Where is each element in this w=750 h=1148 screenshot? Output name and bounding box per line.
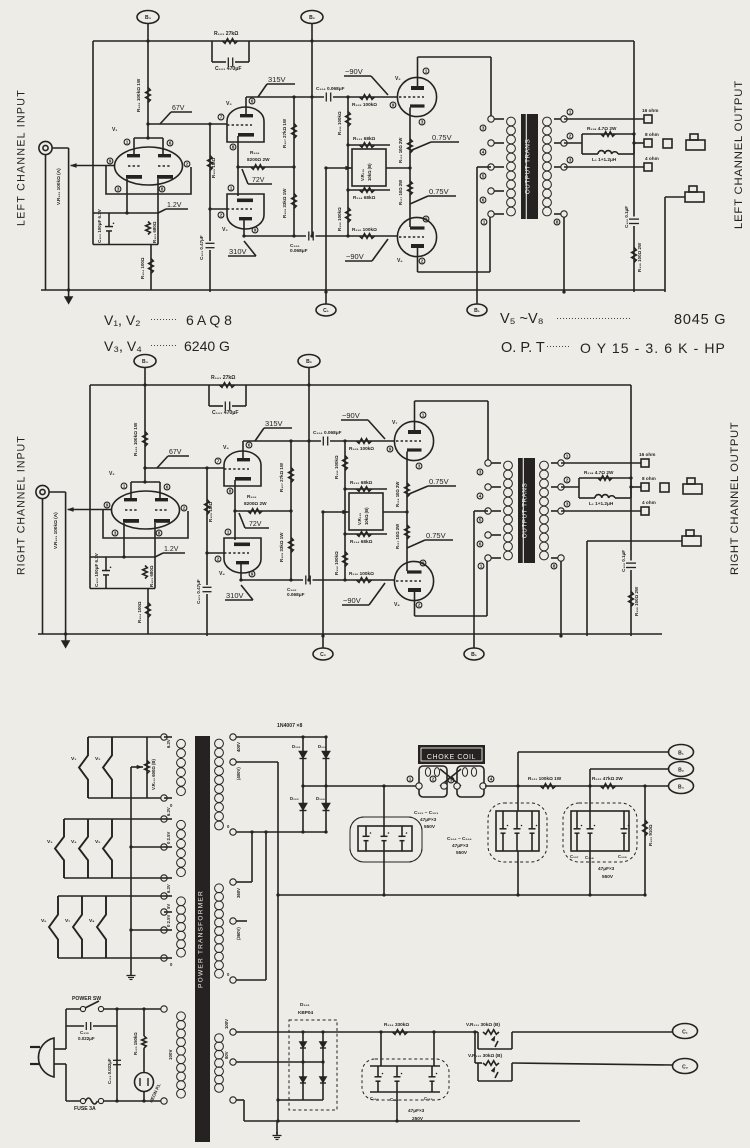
svg-text:315V: 315V: [265, 419, 283, 428]
svg-text:5: 5: [479, 518, 482, 523]
svg-text:R₁₀₉ 100kΩ: R₁₀₉ 100kΩ: [352, 102, 377, 107]
wire R bottom ground rail: [38, 633, 662, 635]
svg-text:R₁₂₃ 910Ω: R₁₂₃ 910Ω: [648, 824, 653, 846]
wire 8 ohm tap: [631, 486, 641, 488]
svg-text:R₁₂₄ 330kΩ: R₁₂₄ 330kΩ: [384, 1022, 409, 1027]
wire R balance wiper from bias terminal: [323, 511, 349, 513]
wire L balance right to cathodes: [386, 167, 410, 169]
tube V₆ 8045G lower output tube: [397, 217, 436, 256]
svg-text:LEFT CHANNEL INPUT: LEFT CHANNEL INPUT: [16, 89, 28, 226]
heater V7 filament: [73, 896, 82, 958]
connector speaker plug B: [685, 192, 704, 202]
pin T1 0V pin winding 1: [161, 795, 167, 801]
svg-text:16 ohm: 16 ohm: [642, 108, 658, 113]
wire heater group 2 center tap to ground bus: [131, 846, 164, 848]
svg-text:10kΩ (B): 10kΩ (B): [367, 163, 372, 181]
svg-text:LEFT CHANNEL OUTPUT: LEFT CHANNEL OUTPUT: [733, 80, 745, 229]
resistor LR108 33k 1W: [293, 167, 295, 236]
capacitor C115 0.022uF across line: [66, 1025, 84, 1027]
wire V₂ cathode leads: [123, 523, 125, 557]
wire R left frame: [89, 385, 91, 557]
capacitor RC101 470uF bypass loop: [208, 385, 210, 406]
svg-text:V₃: V₃: [222, 227, 228, 233]
svg-text:0: 0: [227, 972, 230, 977]
pin T1 HV center 0 pin: [230, 829, 236, 835]
svg-text:C₁₀₉: C₁₀₉: [618, 854, 627, 859]
svg-text:100V: 100V: [168, 1050, 173, 1060]
tube V₄ 6240G second half: [224, 538, 261, 573]
svg-text:R₁₁₁ 100kΩ: R₁₁₁ 100kΩ: [334, 455, 339, 479]
svg-text:6: 6: [482, 198, 485, 203]
pin T1 5V pin winding 3: [161, 909, 167, 915]
svg-text:0 2.5V: 0 2.5V: [166, 832, 171, 844]
coil T1 heater winding 2: [177, 820, 186, 829]
svg-text:550V: 550V: [602, 874, 614, 879]
svg-text:V₃: V₃: [226, 101, 232, 107]
resistor RR105 1M grid leak: [206, 468, 208, 585]
svg-text:V₃: V₃: [47, 839, 53, 845]
svg-text:5V: 5V: [166, 904, 171, 909]
svg-text:0.75V: 0.75V: [429, 187, 449, 196]
svg-text:V₈: V₈: [394, 602, 400, 608]
svg-text:R₁₁₄ 68kΩ: R₁₁₄ 68kΩ: [350, 539, 373, 544]
connector 4 ohm terminal: [641, 507, 649, 515]
svg-text:6: 6: [479, 542, 482, 547]
svg-text:7: 7: [217, 459, 220, 464]
svg-text:D₁₀₄: D₁₀₄: [316, 796, 325, 801]
connector speaker plug A: [660, 483, 669, 492]
svg-text:B₃: B₃: [142, 359, 149, 365]
tube V₃ 6240G second half: [227, 194, 264, 229]
svg-text:0.068μF: 0.068μF: [287, 592, 305, 597]
svg-text:D₁₀₉: D₁₀₉: [300, 1002, 310, 1007]
resistor R122 47k 2W dropping: [601, 784, 616, 789]
svg-text:R₁₁₁ 100kΩ: R₁₁₁ 100kΩ: [337, 111, 342, 135]
capacitor RC105 0.068uF coupling lower: [305, 576, 307, 585]
svg-text:V₆: V₆: [41, 918, 47, 924]
wire B₃ stem: [147, 24, 149, 139]
svg-text:R₁₀₂ 100kΩ 1W: R₁₀₂ 100kΩ 1W: [133, 422, 138, 456]
pin T1 6.3V pin winding 1: [161, 734, 167, 740]
connector R input jack: [36, 485, 49, 498]
inductor LL1 1.2uH damping: [582, 153, 598, 155]
svg-text:1: 1: [483, 220, 486, 225]
resistor RR101 27k on supply rail: [220, 383, 235, 388]
wire L jack to volume pot: [52, 147, 69, 149]
svg-text:B₂: B₂: [309, 15, 315, 21]
svg-text:47μF×3: 47μF×3: [598, 866, 615, 871]
svg-text:8200Ω 2W: 8200Ω 2W: [244, 501, 267, 506]
capacitor LC106 0.1uF feedback: [629, 218, 639, 220]
wire V₅ plate to output transformer: [417, 57, 419, 86]
wire 400V to rectifier anodes: [236, 736, 326, 738]
coil OPT primary winding: [504, 461, 513, 470]
svg-text:100V: 100V: [224, 1019, 229, 1029]
svg-text:R₁₁₄ 68kΩ: R₁₁₄ 68kΩ: [353, 195, 376, 200]
svg-text:47μF×3: 47μF×3: [452, 843, 469, 848]
resistor LR119 100 2W feedback: [632, 248, 637, 263]
svg-text:·········: ·········: [150, 314, 177, 324]
coil OPT primary winding: [507, 117, 516, 126]
wire V₄ plate lead: [240, 564, 242, 580]
pin T1 bias 100V pin: [230, 1029, 236, 1035]
wire B₂ stem down to driver plate node: [311, 24, 313, 237]
resistor RR112 100k bias feed lower: [343, 552, 348, 567]
svg-text:C₁₀₁ 470μF: C₁₀₁ 470μF: [215, 66, 242, 72]
svg-text:V₅ ~V₈: V₅ ~V₈: [500, 311, 544, 327]
wire choke crossover: [440, 769, 461, 786]
lamp NEON P.L pilot light: [143, 1048, 145, 1072]
wire R driver-b grid tap: [207, 552, 224, 554]
connector speaker plug B: [682, 536, 701, 546]
svg-text:3: 3: [418, 464, 421, 469]
svg-text:1: 1: [126, 140, 129, 145]
svg-text:R₁₁₈ 4.7Ω 2W: R₁₁₈ 4.7Ω 2W: [584, 470, 614, 475]
coil T1 heater winding 1: [177, 739, 186, 748]
pin T1 0V pin winding 3: [161, 955, 167, 961]
diode D103: [302, 786, 304, 832]
pin T1 (400V) pin: [230, 759, 236, 765]
svg-text:R₁₁₈ 4.7Ω 2W: R₁₁₈ 4.7Ω 2W: [587, 126, 617, 131]
svg-text:1: 1: [409, 777, 412, 782]
connector L input jack: [39, 141, 52, 154]
coil T1 HV winding 400V: [215, 739, 224, 748]
svg-text:R₁₂₁ 100kΩ 1W: R₁₂₁ 100kΩ 1W: [528, 776, 562, 781]
svg-text:·························: ·························: [556, 313, 631, 323]
wire 360V to center bus: [236, 881, 252, 883]
svg-text:−90V: −90V: [346, 252, 364, 261]
wire B2 takeoff: [590, 768, 668, 770]
resistor RR104 100 to ground: [147, 589, 149, 635]
svg-text:V.R₁₀₁ 100kΩ (A): V.R₁₀₁ 100kΩ (A): [53, 512, 58, 549]
svg-text:3: 3: [482, 126, 485, 131]
tube V₇ 8045G upper output tube: [394, 421, 433, 460]
wire heater group 1 bottom bus: [88, 797, 161, 799]
terminal B₃ supply input: [134, 355, 156, 368]
pin T1 2.5V pin winding 3: [161, 927, 167, 933]
svg-text:9: 9: [422, 561, 425, 566]
svg-text:6.3V: 6.3V: [166, 884, 171, 893]
svg-text:R₁₁₆ 10Ω 2W: R₁₁₆ 10Ω 2W: [398, 138, 403, 163]
svg-text:6: 6: [169, 141, 172, 146]
svg-text:V.R₁₁₂ 30kΩ (B): V.R₁₁₂ 30kΩ (B): [468, 1053, 502, 1058]
svg-text:9: 9: [109, 159, 112, 164]
svg-text:V.R₁₁₀ 600Ω (B): V.R₁₁₀ 600Ω (B): [151, 759, 156, 790]
capacitor C116 0.022uF across line: [116, 1009, 118, 1101]
svg-text:2: 2: [418, 603, 421, 608]
svg-text:OUTPUT TRANS: OUTPUT TRANS: [525, 139, 532, 194]
svg-text:3: 3: [421, 120, 424, 125]
wire AC plug leads: [54, 1048, 66, 1050]
heater V8 filament: [97, 896, 106, 958]
ground L arrow ground below rail: [68, 290, 70, 297]
svg-text:8045 G: 8045 G: [674, 312, 726, 328]
svg-text:0 2.5V: 0 2.5V: [166, 915, 171, 927]
wire V₆ plate to output transformer: [417, 248, 419, 272]
svg-text:3: 3: [117, 187, 120, 192]
fuse FUSE 3A: [66, 1100, 83, 1102]
svg-text:0.022μF: 0.022μF: [78, 1036, 95, 1041]
resistor R121 100k 1W dropping: [541, 784, 556, 789]
resistor LR103 680 cathode bias: [146, 222, 151, 235]
diode D108 bias: [320, 1077, 326, 1082]
svg-text:D₁₀₂: D₁₀₂: [318, 744, 327, 749]
svg-text:8: 8: [161, 187, 164, 192]
svg-text:CHOKE COIL: CHOKE COIL: [427, 754, 476, 761]
node 315V plate of driver: [243, 440, 321, 442]
coil T1 360V winding: [215, 884, 224, 893]
wire secondary common to ground rail: [560, 561, 562, 636]
svg-text:R₁₀₆: R₁₀₆: [250, 150, 260, 155]
resistor RR118 4.7 2W damping: [561, 486, 579, 488]
potentiometer LVR 100k(A) volume: [68, 148, 70, 290]
wire bias output to C1: [512, 1031, 673, 1033]
svg-text:R₁₀₁ 27kΩ: R₁₀₁ 27kΩ: [211, 375, 235, 381]
svg-text:7: 7: [220, 115, 223, 120]
wire right frame feedback line: [630, 385, 632, 561]
svg-text:C₁₀₆ 0.1μF: C₁₀₆ 0.1μF: [621, 550, 626, 572]
wire hum balance wiper to ground bus: [131, 766, 143, 768]
potentiometer VR110 600 ohm hum balance: [146, 737, 148, 798]
diode D102: [325, 737, 327, 786]
terminal B2 output: [669, 762, 694, 777]
svg-text:OUTPUT TRANS: OUTPUT TRANS: [522, 483, 529, 538]
wire 16 ohm tap: [561, 462, 641, 464]
svg-text:RIGHT CHANNEL INPUT: RIGHT CHANNEL INPUT: [16, 435, 28, 575]
node 310V plate of second half: [244, 235, 306, 237]
resistor R120 150k for neon lamp: [143, 1009, 145, 1036]
wire V₇ plate to output transformer: [414, 401, 416, 430]
wire OPT center tap to B1 terminal: [474, 510, 488, 512]
terminal C₂ bias supply: [313, 648, 333, 660]
svg-text:C₁₁₁: C₁₁₁: [390, 1097, 399, 1102]
svg-text:400V: 400V: [236, 742, 241, 752]
wire L driver-b grid tap: [210, 208, 227, 210]
diode D107 bias: [300, 1077, 306, 1082]
pin T1 0V pin winding 2: [161, 875, 167, 881]
terminal B₂ supply input: [301, 11, 323, 24]
svg-text:9: 9: [106, 503, 109, 508]
svg-text:9: 9: [254, 228, 257, 233]
wire filter ground rail: [278, 894, 645, 896]
wire heater group 3 tap to ground bus: [131, 929, 164, 931]
svg-text:D₁₀₁: D₁₀₁: [292, 744, 301, 749]
svg-text:V₂: V₂: [109, 471, 115, 477]
pin T1 bias 80V pin: [230, 1059, 236, 1065]
svg-text:(400V): (400V): [236, 767, 241, 780]
svg-text:R₁₀₁ 27kΩ: R₁₀₁ 27kΩ: [214, 31, 238, 37]
svg-text:5: 5: [482, 174, 485, 179]
svg-text:1: 1: [230, 186, 233, 191]
svg-text:B₃: B₃: [678, 785, 685, 791]
diode D106 bias: [322, 1032, 324, 1100]
ground R arrow ground below rail: [65, 634, 67, 641]
svg-text:D₁₀₃: D₁₀₃: [290, 796, 299, 801]
pin T1 400V pin: [230, 734, 236, 740]
svg-text:·········: ·········: [150, 340, 177, 350]
svg-text:72V: 72V: [252, 177, 265, 184]
wire heater group 1 top bus: [88, 736, 161, 738]
svg-text:310V: 310V: [229, 247, 247, 256]
capacitor LC103 0.47uF: [206, 242, 215, 244]
terminal C1 bias output: [673, 1024, 698, 1039]
terminal B₁ high voltage supply: [467, 304, 487, 316]
wire bias tap down to second adjuster: [474, 1032, 476, 1063]
wire L cathode network box: [93, 212, 158, 214]
resistor LR107 27k 1W: [293, 97, 295, 167]
svg-text:POWER TRANSFORMER: POWER TRANSFORMER: [198, 890, 205, 988]
capacitor bank C107-C109 47uF x3 550V: [571, 811, 629, 851]
resistor LR106 8200 2W cathode coupling: [238, 166, 294, 168]
wire V₄ cathode lead down: [234, 480, 236, 511]
wire 16 ohm tap: [564, 118, 644, 120]
connector AC plug: [38, 1038, 54, 1077]
resistor LR110 100k lower grid stopper: [360, 234, 375, 239]
svg-text:B₂: B₂: [306, 359, 312, 365]
svg-text:R₁₀₄ 100Ω: R₁₀₄ 100Ω: [140, 257, 145, 279]
svg-text:R₁₁₃ 68kΩ: R₁₁₃ 68kΩ: [353, 136, 376, 141]
potentiometer LVR 10k(B) balance: [352, 149, 386, 186]
resistor LR112 100k bias feed lower: [346, 208, 351, 223]
coil T1 heater winding 3: [177, 897, 186, 906]
svg-text:9: 9: [389, 447, 392, 452]
svg-text:4: 4: [490, 777, 493, 782]
resistor LR117 10 2W lower cathode: [408, 181, 413, 195]
svg-text:V₅: V₅: [95, 839, 101, 845]
svg-text:4 ohm: 4 ohm: [645, 156, 659, 161]
svg-text:8 ohm: 8 ohm: [645, 132, 659, 137]
svg-text:1: 1: [227, 530, 230, 535]
resistor RR109 100k upper grid stopper: [357, 439, 372, 444]
svg-text:C₁₀₃ 0.47μF: C₁₀₃ 0.47μF: [196, 579, 201, 604]
svg-text:−90V: −90V: [345, 67, 363, 76]
svg-text:R₁₀₂ 100kΩ 1W: R₁₀₂ 100kΩ 1W: [136, 78, 141, 112]
wire L top supply rail: [93, 40, 634, 42]
connector 8 ohm terminal: [641, 483, 649, 491]
resistor LR113 68k balance upper: [348, 144, 390, 146]
terminal B3 output: [669, 779, 694, 794]
capacitor LC105 0.068uF coupling lower: [308, 232, 310, 241]
resistor RR116 10 2W upper cathode: [405, 483, 410, 497]
svg-text:V₈: V₈: [89, 918, 95, 924]
heater V3 filament: [55, 819, 64, 878]
wire rectifier output to choke: [303, 785, 416, 787]
svg-text:6.3V: 6.3V: [166, 739, 171, 748]
wire OPT center tap to B1 terminal: [477, 166, 491, 168]
svg-text:C₁₀₁ ~ C₁₀₃: C₁₀₁ ~ C₁₀₃: [414, 810, 438, 815]
svg-text:R₁₁₆ 10Ω 2W: R₁₁₆ 10Ω 2W: [395, 482, 400, 507]
svg-text:1: 1: [480, 564, 483, 569]
svg-text:6.3V: 6.3V: [166, 807, 171, 816]
svg-text:B₁: B₁: [678, 751, 684, 757]
resistor LR114 68k balance lower: [348, 189, 390, 191]
diode D105 bias: [302, 1032, 304, 1100]
svg-text:310V: 310V: [226, 591, 244, 600]
svg-text:R₁₀₈ 33kΩ 1W: R₁₀₈ 33kΩ 1W: [279, 532, 284, 562]
svg-text:0: 0: [227, 824, 230, 829]
svg-text:R₁₀₉ 100kΩ: R₁₀₉ 100kΩ: [349, 446, 374, 451]
wire V₁ cathode leads: [126, 179, 128, 213]
wire L cathode chain to second half: [237, 167, 239, 196]
svg-text:KBP04: KBP04: [298, 1010, 314, 1015]
transformer OPT secondary pins: [554, 118, 564, 120]
svg-text:1.2V: 1.2V: [167, 202, 182, 209]
transformer OPT primary pins: [491, 118, 504, 120]
wire bias output to C2: [512, 1063, 673, 1065]
wire 4 ohm tap: [561, 510, 641, 512]
terminal B₃ supply input: [137, 11, 159, 24]
svg-text:0.068μF: 0.068μF: [290, 248, 308, 253]
svg-text:0.75V: 0.75V: [432, 133, 452, 142]
svg-text:3: 3: [566, 502, 569, 507]
svg-text:0: 0: [170, 962, 173, 967]
wire heater group 3 bottom bus: [58, 957, 164, 959]
svg-text:16 ohm: 16 ohm: [639, 452, 655, 457]
diode D101: [302, 737, 304, 786]
wire R top supply rail: [90, 384, 631, 386]
svg-text:C₁₀₄ 0.068μF: C₁₀₄ 0.068μF: [313, 430, 342, 435]
svg-text:8200Ω 2W: 8200Ω 2W: [247, 157, 270, 162]
wire heater group 3 top bus: [58, 895, 164, 897]
svg-text:1: 1: [566, 454, 569, 459]
connector speaker plug A: [663, 139, 672, 148]
svg-text:8: 8: [556, 220, 559, 225]
svg-text:C₁₀₆ 0.1μF: C₁₀₆ 0.1μF: [624, 206, 629, 228]
wire bias AC feed 2: [236, 1061, 323, 1063]
svg-text:(360V): (360V): [236, 927, 241, 940]
svg-text:C₁₀₃ 0.47μF: C₁₀₃ 0.47μF: [199, 235, 204, 260]
tube V₃ 6240G first half: [227, 107, 264, 142]
resistor R123 910 ohm bleeder: [644, 786, 646, 895]
svg-text:O Y 15 - 3. 6 K - HP: O Y 15 - 3. 6 K - HP: [580, 340, 726, 356]
resistor RR114 68k balance lower: [345, 533, 387, 535]
svg-text:8: 8: [553, 564, 556, 569]
svg-text:4: 4: [479, 494, 482, 499]
capacitor LC104 0.068uF coupling upper: [325, 93, 327, 102]
wire L bottom ground rail: [41, 289, 665, 291]
capacitor LC101 470uF bypass loop: [211, 41, 213, 62]
svg-text:4: 4: [482, 150, 485, 155]
resistor RR117 10 2W lower cathode: [405, 525, 410, 539]
resistor LR116 10 2W upper cathode: [408, 139, 413, 153]
svg-text:2: 2: [432, 777, 435, 782]
pin T1 6.3V pin winding 3: [161, 893, 167, 899]
svg-text:L₁ 1+1.2μH: L₁ 1+1.2μH: [592, 157, 617, 162]
connector 4 ohm terminal: [644, 163, 652, 171]
wire L pot wiper to first grid: [71, 164, 77, 168]
svg-text:R₁₁₇ 10Ω 2W: R₁₁₇ 10Ω 2W: [398, 180, 403, 205]
wire heater group 2 bottom bus: [64, 877, 164, 879]
svg-text:V₁, V₂: V₁, V₂: [104, 312, 141, 328]
resistor RR107 27k 1W: [290, 441, 292, 511]
tube V₂ 6AQ8 dual triode: [103, 510, 188, 538]
wire L bias terminal stem: [325, 168, 327, 304]
inductor RL1 1.2uH damping: [579, 497, 595, 499]
svg-text:C₁: C₁: [323, 308, 329, 314]
wire B₂ stem down to driver plate node: [308, 368, 310, 581]
svg-text:1N4007 ×8: 1N4007 ×8: [277, 723, 302, 729]
svg-text:C₁₁₀: C₁₁₀: [370, 1096, 379, 1101]
resistor RR113 68k balance upper: [345, 488, 387, 490]
svg-text:9: 9: [425, 217, 428, 222]
wire B₃ stem: [144, 368, 146, 483]
svg-text:8: 8: [158, 531, 161, 536]
svg-text:R₁₀₅ 1MΩ: R₁₀₅ 1MΩ: [208, 501, 213, 522]
wire 4 ohm tap: [564, 166, 644, 168]
wire (360V) stub: [236, 920, 247, 922]
resistor RR106 8200 2W cathode coupling: [235, 510, 291, 512]
resistor LR105 1M grid leak: [209, 124, 211, 241]
